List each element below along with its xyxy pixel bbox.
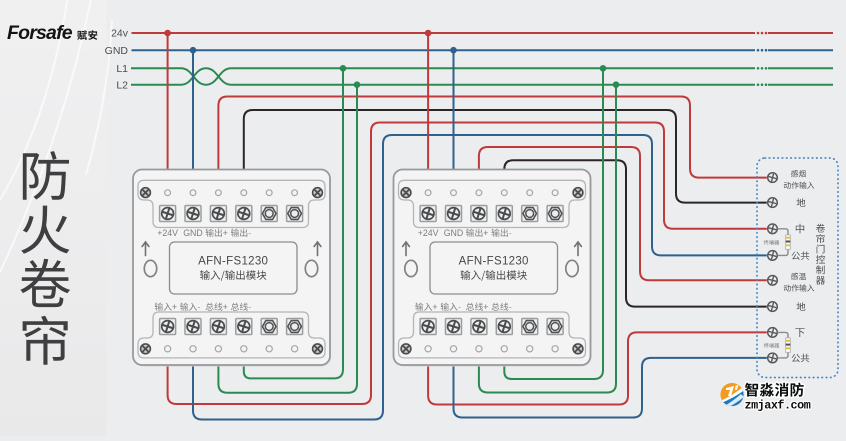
U1 bottom indicator holes [165, 346, 298, 352]
label 公共 2 [792, 354, 810, 363]
terminal U1 IN- [185, 319, 201, 335]
zhimiao fire logo text 智淼消防 [745, 383, 811, 413]
screw U2 BR [573, 344, 583, 354]
wire M2 BUS- to L1 [504, 68, 603, 379]
svg-text:GND: GND [444, 228, 464, 238]
zhimiao fire logo icon [719, 383, 746, 408]
label 终端器 1 [764, 240, 779, 245]
U2 bottom terminal tray [399, 312, 586, 358]
svg-text:L2: L2 [116, 79, 128, 91]
terminal middle [768, 224, 778, 234]
wire M1 +24V drop [167, 34, 169, 179]
wire bus L2 [131, 84, 833, 86]
U2 top terminal tray [399, 180, 586, 227]
U1 bottom terminal tray [138, 312, 325, 358]
wire M2 +24V drop [427, 34, 429, 179]
terminal U1 GND [185, 206, 201, 222]
node junction 24v/M2 [425, 30, 432, 37]
U2 nameplate AFN-FS1230 [430, 242, 558, 294]
svg-text:GND: GND [183, 228, 203, 238]
label 感烟动作输入 [791, 170, 806, 177]
terminal ground1 [768, 198, 778, 208]
label 中 [796, 224, 804, 234]
svg-text:Forsafe: Forsafe [7, 22, 73, 44]
wire M1 GND drop [192, 51, 194, 179]
wire terminator 1 link [778, 229, 789, 256]
node junction L2/M2 [613, 81, 620, 88]
terminal U2 +24V [420, 206, 436, 222]
terminal common2 [768, 353, 778, 363]
wire M2 OUT- to ground2 [504, 160, 767, 306]
terminal down [768, 328, 778, 338]
node junction L1/M2 [600, 65, 607, 72]
terminal common1 [768, 251, 778, 261]
terminal U2 NC1 [522, 206, 538, 222]
U1 top terminal tray [138, 180, 325, 227]
screw U2 BL [401, 344, 411, 354]
terminal U2 BUS+ [471, 319, 487, 335]
node junction L1/M1 [340, 65, 347, 72]
terminal U1 BUS- [236, 319, 252, 335]
U1 top indicator holes [165, 190, 298, 196]
svg-text:GND: GND [105, 45, 129, 57]
terminal ground2 [768, 302, 778, 312]
terminal U1 NC4 [287, 319, 303, 335]
Forsafe logo [7, 22, 97, 44]
label 卷帘门控制器 (vertical) [816, 224, 825, 285]
svg-text:+24V: +24V [418, 228, 439, 238]
wire M1 OUT- to ground1 [244, 110, 767, 203]
op-amp module U2 AFN-FS1230 [394, 170, 592, 367]
terminal U1 NC3 [261, 319, 277, 335]
wire bus L1 [131, 67, 833, 69]
U1 bottom pin labels [155, 303, 177, 311]
terminal U1 OUT- [236, 206, 252, 222]
terminal U1 NC2 [287, 206, 303, 222]
screw U1 BL [141, 344, 151, 354]
terminal U2 NC4 [547, 319, 563, 335]
U1 left oval [144, 260, 156, 276]
terminal heat-in [768, 276, 778, 286]
U2 left arrow [403, 242, 410, 256]
wire M1 IN- to common1 [193, 135, 767, 420]
wire M2 IN+ to down [428, 332, 767, 404]
svg-text:AFN-FS1230: AFN-FS1230 [459, 256, 529, 268]
terminal U1 BUS+ [210, 319, 226, 335]
terminal U1 OUT+ [210, 206, 226, 222]
terminal U1 IN+ [160, 319, 176, 335]
wire M2 BUS+ to L2 [479, 85, 616, 393]
shutter controller terminal strip [757, 158, 838, 378]
wire M1 IN+ to middle [168, 123, 767, 405]
svg-text:AFN-FS1230: AFN-FS1230 [198, 256, 268, 268]
screw U1 TL [141, 188, 151, 198]
terminal U2 OUT- [496, 206, 512, 222]
svg-text:zmjaxf.com: zmjaxf.com [745, 399, 811, 413]
U1 right oval [305, 260, 317, 276]
label 公共 1 [792, 252, 810, 261]
node junction L2/M1 [354, 81, 361, 88]
U2 bottom indicator holes [425, 346, 558, 352]
terminal U2 GND [446, 206, 462, 222]
terminal U2 IN+ [420, 319, 436, 335]
label 地 2 [797, 302, 806, 311]
wire M2 GND drop [453, 51, 455, 179]
resistor terminator 2 终端器 [786, 338, 791, 352]
resistor terminator 1 终端器 [786, 235, 791, 249]
U2 bottom pin labels [415, 303, 437, 311]
screw U1 TR [313, 188, 323, 198]
screw U2 TR [573, 188, 583, 198]
terminal U1 +24V [160, 206, 176, 222]
terminal U2 IN- [446, 319, 462, 335]
wire L1/L2 twisted pair crossover [181, 68, 231, 84]
node junction GND/M1 [190, 47, 197, 54]
terminal U2 OUT+ [471, 206, 487, 222]
label 下 [795, 328, 804, 337]
U2 top pin labels [418, 228, 464, 238]
terminal U2 BUS- [496, 319, 512, 335]
U1 right arrow [314, 242, 321, 256]
terminal U2 NC3 [522, 319, 538, 335]
wire bus GND [132, 49, 834, 51]
svg-text:+24V: +24V [157, 228, 178, 238]
screw U1 BR [313, 344, 323, 354]
wire M1 BUS+ to L2 [218, 85, 357, 393]
U2 right arrow [575, 242, 582, 256]
terminal smoke-in [768, 173, 778, 183]
screw U2 TL [401, 188, 411, 198]
wire M1 BUS- to L1 [244, 68, 343, 378]
U1 nameplate AFN-FS1230 [170, 242, 298, 294]
label 终端器 2 [764, 343, 779, 348]
terminal U2 NC2 [547, 206, 563, 222]
wire terminator 2 link [778, 332, 789, 358]
U1 top pin labels [157, 228, 203, 238]
svg-text:24v: 24v [111, 28, 129, 40]
wire M1 OUT+ to smoke input [218, 97, 766, 180]
U2 right oval [566, 260, 578, 276]
svg-text:L1: L1 [116, 63, 128, 75]
slogan 防火卷帘 [20, 151, 70, 365]
wire M2 IN- to common2 [454, 358, 767, 418]
node junction GND/M2 [450, 47, 457, 54]
U2 left oval [405, 260, 417, 276]
U1 left arrow [142, 242, 149, 256]
wire M2 OUT+ to heat input [479, 147, 767, 280]
terminal U1 NC1 [261, 206, 277, 222]
wire bus 24v [132, 32, 834, 34]
label 地 1 [797, 198, 806, 207]
label 感温动作输入 [791, 273, 806, 280]
U2 top indicator holes [425, 190, 558, 196]
op-amp module U1 AFN-FS1230 [133, 170, 331, 367]
node junction 24v/M1 [164, 30, 171, 37]
